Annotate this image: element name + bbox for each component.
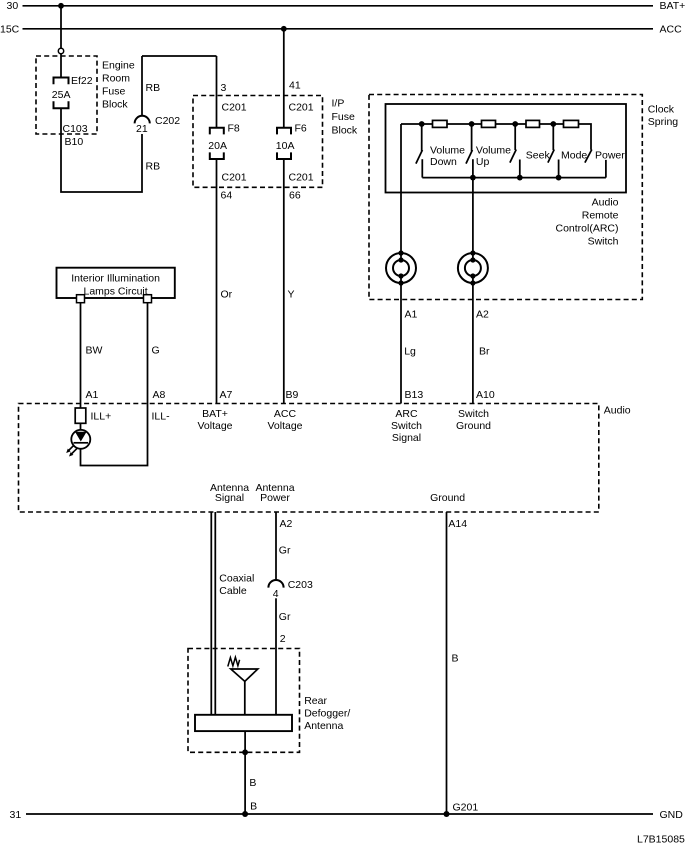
node: right coupling bottom outer	[470, 280, 475, 285]
svg-text:I/P: I/P	[332, 98, 345, 110]
fuse F8 top clip	[210, 128, 224, 135]
wire: RB feed across top to I/P fuse F8	[142, 55, 217, 57]
svg-text:30: 30	[7, 0, 19, 12]
switch: Volume Up upper contact	[471, 124, 473, 151]
svg-text:C201: C201	[222, 172, 247, 184]
connector C203 pin 4 half-ring	[268, 580, 283, 588]
svg-text:B9: B9	[286, 389, 299, 401]
svg-text:Spring: Spring	[648, 116, 679, 128]
node: bus tap Seek	[512, 121, 518, 127]
svg-text:A14: A14	[448, 518, 467, 530]
svg-text:41: 41	[289, 80, 301, 92]
switch: Volume Up blade	[466, 150, 472, 164]
wire: A1 into illumination resistor	[80, 404, 82, 409]
svg-text:Audio: Audio	[604, 405, 631, 417]
fuse Ef22 25A top clip	[54, 78, 69, 85]
svg-text:ARC: ARC	[395, 408, 418, 420]
illumination dropping resistor inside audio	[75, 408, 86, 423]
node: left coupling bottom inner	[398, 273, 403, 278]
wire: ARC signal line down to clock spring coil A1	[400, 124, 402, 261]
wire: resistor to illumination LED	[80, 423, 82, 430]
Rear Defogger/Antenna dashed box	[188, 649, 300, 753]
node: junction of Ef22 feed on BAT+ rail	[58, 3, 64, 9]
svg-text:Volume: Volume	[430, 145, 465, 157]
svg-text:Fuse: Fuse	[332, 111, 356, 123]
wire: ACC rail (circuit 15C)	[23, 28, 654, 30]
terminal pad: lamps circuit left output	[77, 295, 85, 303]
clock spring rotary coupling right (outer ring)	[458, 253, 488, 283]
node: junction of F6 feed on ACC rail	[281, 26, 287, 32]
svg-text:Switch: Switch	[588, 236, 619, 248]
svg-text:C202: C202	[155, 115, 180, 127]
wire: defogger ground lead (B)	[244, 731, 246, 814]
svg-text:Seek: Seek	[526, 150, 551, 162]
svg-text:Block: Block	[332, 125, 358, 137]
switch: Volume Down upper contact	[421, 124, 423, 151]
illumination LED lamp body	[71, 430, 90, 449]
wire: GND rail (circuit 31)	[26, 813, 653, 815]
switch: Volume Down blade	[416, 150, 423, 164]
wire: G down to audio A8	[147, 303, 149, 404]
wire: coaxial cable inner conductor	[214, 512, 216, 715]
connector C202 pin 21 half-ring	[135, 116, 150, 124]
svg-text:Y: Y	[288, 289, 295, 301]
wire: feed into fuse F6	[283, 29, 285, 128]
node: bus tap Volume Down	[419, 121, 425, 127]
node: left coupling top outer	[398, 250, 403, 255]
fuse F6 bottom clip	[277, 152, 291, 159]
svg-text:31: 31	[10, 809, 22, 821]
antenna stem	[244, 681, 246, 714]
svg-text:ACC: ACC	[660, 24, 683, 36]
svg-text:A10: A10	[476, 389, 495, 401]
wire: audio ground down to G201 (B)	[446, 512, 448, 814]
svg-text:B: B	[452, 653, 459, 665]
I/P Fuse Block dashed box	[193, 96, 323, 188]
svg-text:BW: BW	[86, 345, 103, 357]
svg-text:Ground: Ground	[430, 492, 465, 504]
svg-text:B: B	[249, 777, 256, 789]
svg-text:Mode: Mode	[561, 150, 587, 162]
defogger heater grid squiggle	[228, 657, 240, 666]
svg-text:Signal: Signal	[215, 492, 244, 504]
svg-text:L7B15085: L7B15085	[637, 834, 685, 846]
svg-text:F6: F6	[295, 123, 307, 135]
svg-text:Ef22: Ef22	[71, 75, 93, 87]
Interior Illumination Lamps Circuit box	[57, 268, 175, 298]
illumination LED cathode bar	[74, 442, 89, 444]
svg-text:64: 64	[221, 190, 233, 202]
node: right coupling top outer	[470, 250, 475, 255]
svg-text:Signal: Signal	[392, 432, 421, 444]
svg-text:Engine: Engine	[102, 60, 135, 72]
svg-text:Audio: Audio	[592, 197, 619, 209]
svg-text:Or: Or	[221, 289, 233, 301]
clock spring rotary coupling left (inner ring)	[393, 260, 409, 276]
node: right coupling bottom inner	[470, 273, 475, 278]
svg-text:B13: B13	[405, 389, 424, 401]
switch: Power blade	[585, 150, 592, 163]
wire: feed into fuse F8	[216, 56, 218, 128]
svg-text:F8: F8	[228, 123, 240, 135]
wire: antenna power feed upper (Gr)	[275, 512, 277, 580]
resistor R1 (ladder)	[433, 120, 448, 127]
svg-text:66: 66	[289, 190, 301, 202]
svg-text:Power: Power	[260, 492, 290, 504]
wire: antenna power feed lower (Gr)	[275, 598, 277, 715]
illumination LED light arrow 2	[71, 448, 77, 454]
svg-text:25A: 25A	[52, 89, 71, 101]
node: bottom bus junction Mode	[556, 175, 562, 181]
svg-text:ACC: ACC	[274, 408, 297, 420]
terminal pad: lamps circuit right output	[144, 295, 152, 303]
wire: LED return to A8 (ILL-)	[81, 404, 148, 466]
svg-text:C203: C203	[288, 579, 313, 591]
svg-text:Volume: Volume	[476, 145, 511, 157]
svg-text:Up: Up	[476, 156, 490, 168]
switch: Mode lower contact	[558, 160, 560, 178]
illumination LED light arrow 1	[69, 445, 75, 451]
illumination LED triangle	[75, 432, 87, 442]
svg-text:21: 21	[136, 123, 148, 135]
svg-text:20A: 20A	[208, 140, 227, 152]
svg-text:BAT+: BAT+	[660, 0, 686, 12]
svg-text:Room: Room	[102, 73, 130, 85]
wire: coupling A1 down to audio B13 (Lg)	[400, 276, 402, 404]
svg-text:B: B	[250, 801, 257, 813]
wire: ARC ground line down to clock spring coil A2	[472, 159, 474, 260]
svg-text:ILL-: ILL-	[152, 410, 171, 422]
node: bus tap Volume Up	[469, 121, 475, 127]
svg-text:A2: A2	[476, 308, 489, 320]
svg-text:G201: G201	[453, 802, 479, 814]
resistor R4 (ladder)	[564, 120, 579, 127]
node: defogger ground junction on rail	[242, 811, 248, 817]
svg-text:Coaxial: Coaxial	[219, 573, 254, 585]
svg-text:Control(ARC): Control(ARC)	[555, 223, 618, 235]
svg-text:Ground: Ground	[456, 420, 491, 432]
svg-text:Switch: Switch	[458, 408, 489, 420]
node: bottom bus junction Volume Up output	[470, 175, 476, 181]
svg-text:Voltage: Voltage	[267, 420, 302, 432]
svg-text:Switch: Switch	[391, 420, 422, 432]
svg-text:Rear: Rear	[304, 695, 327, 707]
svg-text:A1: A1	[405, 308, 418, 320]
svg-text:A2: A2	[280, 518, 293, 530]
svg-text:A8: A8	[153, 389, 166, 401]
wire: coupling A2 down to audio A10 (Br)	[472, 276, 474, 404]
svg-text:Defogger/: Defogger/	[304, 708, 350, 720]
Engine Room Fuse Block dashed box	[36, 56, 97, 134]
resistor R2 (ladder)	[482, 120, 496, 127]
node: bus tap Mode	[550, 121, 556, 127]
wire: resistor ladder top bus	[401, 124, 591, 150]
clock spring rotary coupling right (inner ring)	[465, 260, 481, 276]
Audio Remote Control (ARC) Switch box	[386, 104, 627, 193]
svg-text:C103: C103	[63, 123, 88, 135]
clock spring rotary coupling left (outer ring)	[386, 253, 416, 283]
node: G201 junction on rail	[444, 811, 450, 817]
connector C103 pin B10 ring terminal	[58, 48, 63, 53]
svg-text:BAT+: BAT+	[202, 408, 228, 420]
wire: F6 output down to audio B9 (Y)	[283, 159, 285, 404]
svg-text:Cable: Cable	[219, 585, 247, 597]
svg-text:C201: C201	[222, 102, 247, 114]
svg-text:Down: Down	[430, 156, 457, 168]
wire: BW down to audio A1	[80, 303, 82, 404]
svg-text:Clock: Clock	[648, 104, 675, 116]
svg-text:B10: B10	[65, 136, 84, 148]
svg-text:C201: C201	[289, 172, 314, 184]
switch: Mode upper contact	[552, 124, 554, 150]
switch: Volume Down lower contact	[421, 159, 423, 177]
wire: switch common bottom bus	[422, 177, 606, 179]
svg-text:Block: Block	[102, 99, 128, 111]
fuse F8 bottom clip	[210, 152, 224, 159]
svg-text:C201: C201	[289, 102, 314, 114]
svg-text:RB: RB	[146, 82, 161, 94]
switch: Seek upper contact	[514, 124, 516, 150]
svg-text:G: G	[152, 345, 160, 357]
svg-text:15C: 15C	[0, 24, 20, 36]
node: right coupling top inner	[470, 257, 475, 262]
switch: Power lower contact	[605, 160, 607, 178]
switch: Mode blade	[548, 150, 554, 163]
Clock Spring dashed box	[369, 95, 642, 300]
svg-text:4: 4	[273, 588, 279, 600]
wire: coaxial cable outer conductor	[210, 512, 212, 715]
wire: F8 output down to audio A7 (Or)	[216, 159, 218, 404]
svg-text:ILL+: ILL+	[91, 410, 112, 422]
wire: ring terminal into fuse Ef22	[60, 54, 62, 78]
svg-text:Interior Illumination: Interior Illumination	[71, 272, 160, 284]
wire: stub above C202	[141, 56, 143, 116]
svg-text:3: 3	[221, 82, 227, 94]
Audio unit dashed box	[19, 404, 599, 513]
wire: BAT+ rail down to connector B10	[60, 6, 62, 48]
svg-text:Fuse: Fuse	[102, 86, 126, 98]
svg-text:Remote: Remote	[582, 210, 619, 222]
fuse F6 top clip	[277, 128, 291, 135]
svg-text:Lg: Lg	[404, 346, 416, 358]
svg-text:Power: Power	[595, 150, 625, 162]
svg-text:Antenna: Antenna	[304, 720, 343, 732]
svg-text:GND: GND	[660, 809, 684, 821]
svg-text:2: 2	[280, 633, 286, 645]
svg-text:10A: 10A	[276, 140, 295, 152]
resistor R3 (ladder)	[526, 120, 540, 127]
node: lead crossing defogger box edge	[242, 749, 248, 755]
svg-text:RB: RB	[146, 161, 161, 173]
wire: BAT+ rail (circuit 30)	[23, 5, 654, 7]
fuse Ef22 bottom clip	[54, 101, 69, 108]
node: left coupling bottom outer	[398, 280, 403, 285]
switch: Seek blade	[510, 150, 516, 163]
node: bottom bus junction Seek	[517, 175, 523, 181]
svg-text:A1: A1	[86, 389, 99, 401]
node: left coupling top inner	[398, 257, 403, 262]
svg-text:Gr: Gr	[279, 611, 291, 623]
switch: Seek lower contact	[519, 160, 521, 178]
svg-text:Voltage: Voltage	[197, 420, 232, 432]
wire: fuse Ef22 output down, over and up to C202 (RB)	[61, 108, 142, 192]
antenna element triangle	[231, 669, 258, 681]
svg-text:Lamps Circuit: Lamps Circuit	[84, 285, 148, 297]
svg-text:Gr: Gr	[279, 545, 291, 557]
svg-text:Br: Br	[479, 346, 490, 358]
rear window / antenna bar	[195, 715, 292, 731]
svg-text:A7: A7	[220, 389, 233, 401]
